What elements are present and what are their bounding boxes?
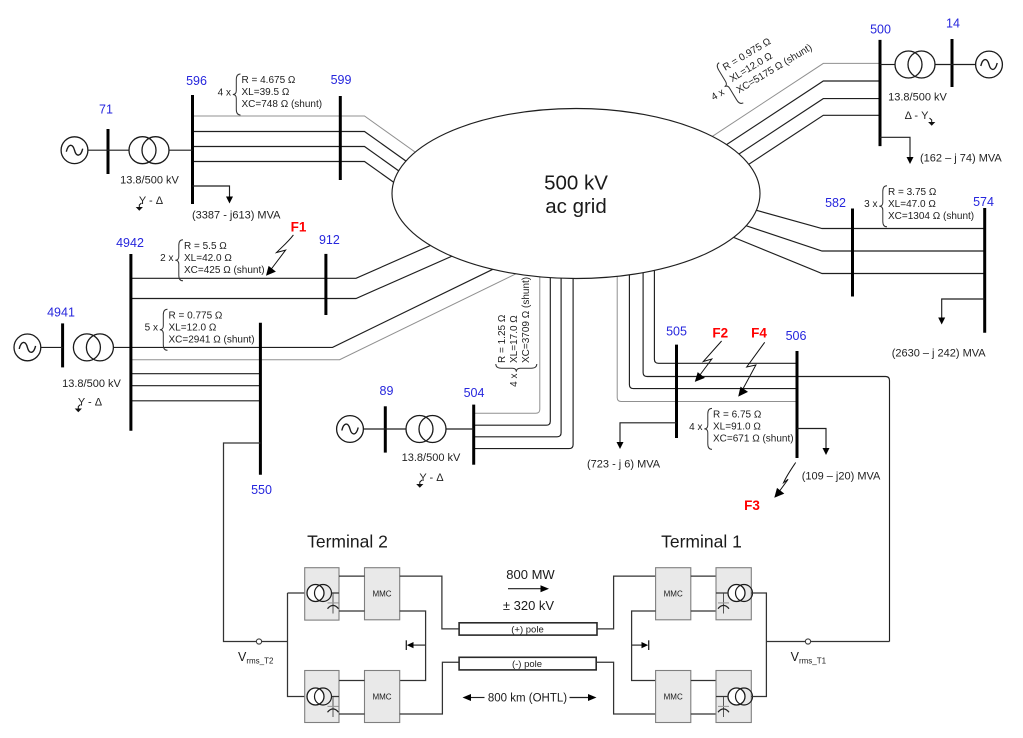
MMC box T1 upper: [656, 568, 691, 620]
svg-text:Terminal 2: Terminal 2: [307, 532, 388, 552]
svg-text:XL=12.0 Ω: XL=12.0 Ω: [169, 322, 217, 333]
(-) pole conductor box: [459, 657, 596, 670]
line 4941-4942-550 circuit 1: [113, 266, 500, 348]
line grid-505-506 circuit 3: [629, 265, 797, 389]
parameters line 596-599: [218, 74, 322, 115]
line 596-599 circuit 2: [193, 132, 445, 189]
line grid-504 circuit 4: [474, 265, 573, 449]
svg-text:13.8/500 kV: 13.8/500 kV: [120, 175, 179, 187]
line 4942-912 circuit 1: [131, 226, 475, 278]
load arrow bus 596: [193, 186, 230, 198]
line grid-500 circuit 4: [677, 115, 880, 211]
svg-text:XL=47.0 Ω: XL=47.0 Ω: [888, 199, 936, 210]
load arrow bus 574: [942, 299, 985, 318]
svg-text:XL=42.0 Ω: XL=42.0 Ω: [184, 253, 232, 264]
line grid-504 circuit 1 (gray): [474, 265, 540, 413]
load arrow bus 506: [797, 429, 826, 449]
bus 71: [107, 129, 110, 174]
bus 582: [851, 209, 854, 297]
svg-text:4 x: 4 x: [689, 422, 702, 433]
line grid-500 circuit 1 (gray): [677, 63, 880, 159]
svg-text:XC=425 Ω (shunt): XC=425 Ω (shunt): [184, 265, 265, 276]
svg-text:Terminal 1: Terminal 1: [661, 532, 742, 552]
line 582-574 circuit 1: [712, 198, 985, 229]
svg-text:MMC: MMC: [664, 590, 683, 599]
line grid-500 circuit 3: [677, 99, 880, 195]
svg-text:MMC: MMC: [664, 693, 683, 702]
svg-text:R = 4.675 Ω: R = 4.675 Ω: [242, 75, 296, 86]
svg-text:550: 550: [251, 483, 272, 497]
wire T2 upper MMC to (+) pole: [400, 576, 459, 629]
parameters line grid-500 (rotated): [698, 18, 818, 116]
line 582-574 circuit 2: [714, 215, 985, 251]
bus 550: [259, 323, 262, 475]
svg-text:504: 504: [464, 386, 485, 400]
line 596-599 circuit 3: [193, 147, 445, 204]
svg-text:± 320 kV: ± 320 kV: [503, 598, 555, 613]
line grid-505-506 circuit 2 and wire to Vrms_T1: [643, 265, 889, 642]
svg-text:(-) pole: (-) pole: [512, 659, 542, 670]
svg-text:XL=39.5 Ω: XL=39.5 Ω: [242, 87, 290, 98]
svg-text:13.8/500 kV: 13.8/500 kV: [62, 378, 121, 390]
wire Vrms_T1: [766, 641, 889, 643]
svg-text:XC=3709 Ω (shunt): XC=3709 Ω (shunt): [521, 277, 532, 363]
svg-text:5 x: 5 x: [145, 323, 158, 334]
svg-text:(+) pole: (+) pole: [511, 625, 543, 636]
svg-text:500: 500: [870, 23, 891, 37]
svg-text:574: 574: [973, 195, 994, 209]
generator G14: [952, 64, 976, 66]
svg-text:(2630 – j 242) MVA: (2630 – j 242) MVA: [892, 348, 987, 360]
svg-text:912: 912: [319, 233, 340, 247]
svg-text:4 x: 4 x: [509, 374, 520, 387]
bus 574: [983, 208, 986, 333]
fault bolt F1: [270, 235, 293, 271]
svg-text:582: 582: [825, 196, 846, 210]
generator G89: [363, 428, 385, 430]
svg-text:Y - Δ: Y - Δ: [139, 195, 164, 207]
svg-text:Y - Δ: Y - Δ: [419, 472, 444, 484]
svg-text:800 MW: 800 MW: [506, 567, 555, 582]
parameters line 582-574: [864, 186, 974, 227]
line 4942-550 circuit 4: [131, 385, 261, 387]
bus 912: [324, 254, 327, 315]
line 4942-550 circuit 3: [131, 373, 261, 375]
wire T2 dc midpoint: [400, 611, 426, 681]
parameters line 505-506: [689, 408, 793, 449]
bus 4942: [129, 254, 132, 431]
fault bolt F3: [779, 463, 796, 493]
svg-text:505: 505: [666, 325, 687, 339]
transformer T89: [385, 428, 406, 430]
svg-text:XC=2941 Ω (shunt): XC=2941 Ω (shunt): [169, 334, 255, 345]
node Vrms_T1: [805, 639, 810, 644]
line 4942-550 circuit 2 (gray): [131, 272, 520, 360]
parameters line 4942-912: [160, 240, 264, 281]
ground electrode T2: [411, 644, 426, 646]
transformer T500: [880, 64, 895, 66]
bus 500: [879, 40, 882, 146]
svg-text:Δ - Y: Δ - Y: [905, 110, 930, 122]
bus 14: [951, 39, 954, 87]
svg-text:(3387 - j613) MVA: (3387 - j613) MVA: [192, 210, 281, 222]
wires T1 upper MMC-xfmr: [691, 576, 716, 611]
svg-text:599: 599: [331, 73, 352, 87]
OHTL arrow left: [469, 697, 485, 699]
line grid-505-506 circuit 1: [654, 265, 797, 363]
wire T2 lower MMC to (-) pole: [400, 662, 459, 714]
svg-text:XL=91.0 Ω: XL=91.0 Ω: [713, 422, 761, 433]
wire (-) pole to T1 lower MMC: [596, 662, 655, 714]
fault bolt F4: [742, 342, 765, 391]
svg-text:XC=748 Ω (shunt): XC=748 Ω (shunt): [242, 99, 323, 110]
svg-text:500 kV: 500 kV: [544, 172, 608, 195]
MMC box T2 lower: [365, 671, 400, 723]
line 4942-550 circuit 5: [131, 400, 261, 402]
converter transformer box T2 upper: [305, 568, 339, 620]
line 4942-912 circuit 2: [131, 246, 475, 299]
converter transformer box T2 lower: [305, 671, 339, 723]
wire T1 ac join: [751, 593, 766, 697]
parameters line grid-504 (rotated): [496, 277, 537, 387]
wires T1 lower MMC-xfmr: [691, 681, 716, 715]
bus 599: [339, 96, 342, 180]
generator G71: [88, 149, 108, 151]
node Vrms_T2: [256, 639, 261, 644]
line 596-599 circuit 1 (gray): [193, 116, 445, 173]
converter transformer box T1 lower: [716, 671, 751, 723]
svg-text:F2: F2: [712, 326, 728, 341]
svg-text:R = 1.25 Ω: R = 1.25 Ω: [497, 314, 508, 363]
transformer T4941: [73, 334, 113, 361]
svg-text:(723 - j 6) MVA: (723 - j 6) MVA: [587, 459, 661, 471]
svg-text:(162 – j 74) MVA: (162 – j 74) MVA: [920, 153, 1002, 165]
svg-text:F4: F4: [751, 326, 767, 341]
svg-text:71: 71: [99, 103, 113, 117]
generator G4941: [41, 346, 63, 348]
ground electrode T1: [632, 644, 645, 646]
MMC box T1 lower: [656, 671, 691, 723]
svg-text:XL=17.0 Ω: XL=17.0 Ω: [509, 315, 520, 363]
svg-text:800 km (OHTL): 800 km (OHTL): [488, 693, 567, 705]
svg-text:ac grid: ac grid: [545, 195, 607, 218]
svg-text:R = 0.775 Ω: R = 0.775 Ω: [169, 311, 223, 322]
svg-text:14: 14: [946, 17, 960, 31]
(+) pole conductor box: [459, 623, 597, 635]
svg-text:4 x: 4 x: [218, 87, 231, 98]
svg-text:F1: F1: [291, 220, 307, 235]
svg-text:2 x: 2 x: [160, 253, 173, 264]
parameters line 4941 group: [145, 309, 255, 350]
bus 505: [675, 345, 678, 438]
svg-text:Y - Δ: Y - Δ: [78, 397, 103, 409]
svg-text:MMC: MMC: [372, 693, 391, 702]
svg-text:4941: 4941: [47, 306, 75, 320]
bus 506: [796, 351, 799, 458]
line 582-574 circuit 3: [718, 231, 985, 274]
bus 89: [384, 406, 387, 452]
line grid-504 circuit 3: [474, 265, 561, 437]
svg-text:596: 596: [186, 74, 207, 88]
svg-text:89: 89: [380, 384, 394, 398]
line grid-500 circuit 2: [677, 81, 880, 177]
svg-text:13.8/500 kV: 13.8/500 kV: [402, 452, 461, 464]
bus 596: [191, 95, 194, 204]
svg-text:MMC: MMC: [372, 590, 391, 599]
power flow arrow: [508, 588, 542, 590]
svg-text:F3: F3: [744, 498, 760, 513]
line 596-599 circuit 4: [193, 162, 445, 219]
MMC box T2 upper: [365, 568, 400, 620]
svg-text:506: 506: [786, 329, 807, 343]
svg-text:XC=1304 Ω (shunt): XC=1304 Ω (shunt): [888, 211, 974, 222]
svg-text:R = 5.5 Ω: R = 5.5 Ω: [184, 241, 227, 252]
svg-text:R = 6.75 Ω: R = 6.75 Ω: [713, 410, 762, 421]
svg-text:XC=671 Ω (shunt): XC=671 Ω (shunt): [713, 433, 794, 444]
wire (+) pole to T1 MMC: [597, 576, 656, 629]
wires T2 lower xfmr-MMC: [339, 681, 365, 715]
svg-text:13.8/500 kV: 13.8/500 kV: [888, 92, 947, 104]
svg-text:(109 – j20) MVA: (109 – j20) MVA: [802, 471, 881, 483]
load arrow bus 500: [880, 137, 910, 158]
bus 4941: [61, 323, 64, 367]
svg-text:4942: 4942: [116, 236, 144, 250]
converter transformer box T1 upper: [716, 568, 751, 620]
wire bus550 to Vrms_T2 node: [224, 443, 288, 642]
line grid-504 circuit 2: [474, 265, 551, 425]
load arrow bus 505: [620, 423, 677, 443]
svg-text:R = 3.75 Ω: R = 3.75 Ω: [888, 187, 937, 198]
line grid-505-506 circuit 4 (gray): [617, 265, 797, 402]
OHTL arrow right: [570, 697, 591, 699]
svg-text:3 x: 3 x: [864, 199, 877, 210]
500 kV ac grid ellipse: [392, 109, 760, 279]
transformer T71: [108, 149, 129, 151]
wire T1 dc midpoint: [632, 611, 656, 681]
wires T2 upper xfmr-MMC: [339, 576, 365, 611]
bus 504: [472, 405, 475, 465]
wire T2 ac split: [288, 593, 305, 697]
fault bolt F2: [699, 341, 722, 377]
